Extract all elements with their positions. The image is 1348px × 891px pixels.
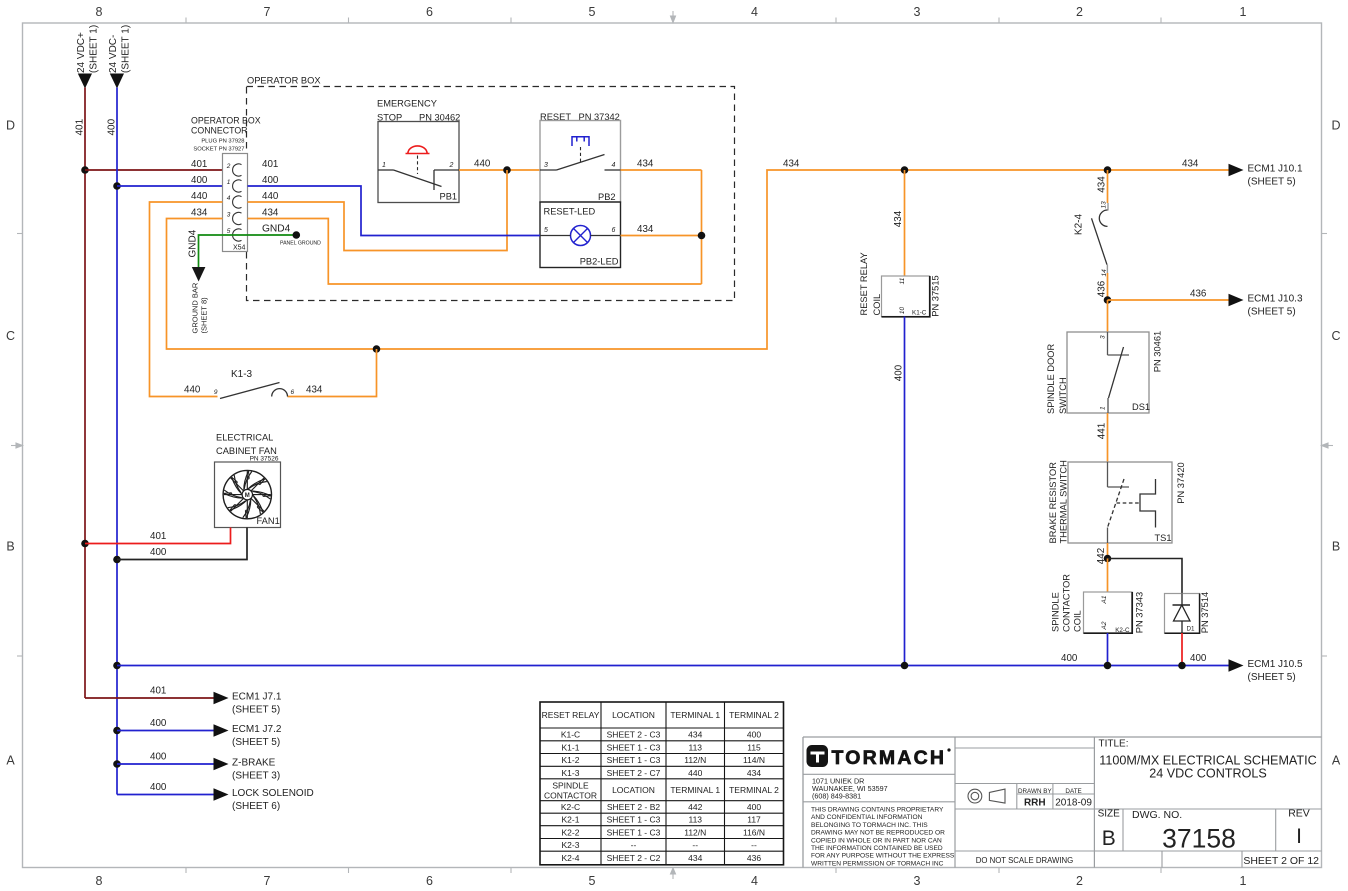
svg-text:9: 9 — [214, 389, 218, 396]
svg-text:WRITTEN PERMISSION OF TORMACH: WRITTEN PERMISSION OF TORMACH INC — [811, 860, 944, 867]
sheet reference ECM1 J10.1 (sheet 5) — [1182, 159, 1303, 188]
svg-text:TERMINAL 2: TERMINAL 2 — [729, 785, 779, 795]
svg-text:OPERATOR BOX: OPERATOR BOX — [247, 76, 321, 86]
svg-text:PN 37343: PN 37343 — [1135, 592, 1145, 633]
svg-text:400: 400 — [262, 175, 279, 186]
svg-text:CABINET FAN: CABINET FAN — [216, 446, 277, 456]
svg-text:SPINDLE DOOR: SPINDLE DOOR — [1046, 343, 1056, 414]
svg-text:PN 37514: PN 37514 — [1200, 592, 1210, 633]
svg-text:SOCKET PN 37927: SOCKET PN 37927 — [193, 147, 244, 153]
svg-text:ECM1 J7.1: ECM1 J7.1 — [232, 692, 282, 703]
svg-text:2: 2 — [449, 162, 454, 169]
svg-text:(SHEET 5): (SHEET 5) — [1248, 672, 1296, 683]
svg-text:401: 401 — [150, 531, 166, 542]
size / dwg no / rev — [1098, 808, 1310, 854]
svg-text:SWITCH: SWITCH — [1058, 377, 1068, 414]
wire 441 DS1 to TS1 — [1097, 413, 1108, 462]
svg-text:A2: A2 — [1101, 621, 1108, 630]
svg-text:2: 2 — [226, 163, 231, 170]
svg-text:8: 8 — [96, 874, 103, 888]
svg-text:4: 4 — [227, 195, 231, 202]
svg-text:434: 434 — [893, 210, 904, 227]
node: 400 bus junction K2-C — [1104, 662, 1112, 670]
svg-text:2: 2 — [1076, 5, 1083, 19]
svg-text:401: 401 — [262, 159, 278, 170]
svg-text:400: 400 — [150, 752, 167, 763]
wire 400 K2-C to bus — [1107, 633, 1109, 666]
svg-text:112/N: 112/N — [684, 827, 706, 837]
svg-text:4: 4 — [751, 5, 758, 19]
svg-text:114/N: 114/N — [743, 755, 765, 765]
svg-text:24 VDC CONTROLS: 24 VDC CONTROLS — [1149, 767, 1267, 781]
pushbutton PB2 RESET PN 37342 — [540, 112, 621, 202]
relay contact K1-3 — [184, 369, 323, 399]
svg-text:440: 440 — [262, 191, 279, 202]
svg-text:GND4: GND4 — [262, 224, 291, 235]
wire 401 fan feed (red) — [85, 528, 231, 544]
svg-text:C: C — [1331, 329, 1340, 343]
svg-text:436: 436 — [1190, 289, 1207, 300]
third-angle projection symbol — [968, 789, 1005, 803]
svg-text:3: 3 — [227, 212, 231, 219]
wire 401 rail vertical — [75, 88, 86, 699]
svg-text:GND4: GND4 — [188, 229, 199, 257]
svg-text:440: 440 — [184, 385, 201, 396]
svg-text:5: 5 — [589, 5, 596, 19]
svg-text:PB2: PB2 — [598, 192, 616, 202]
svg-text:115: 115 — [747, 742, 761, 752]
svg-text:THERMAL SWITCH: THERMAL SWITCH — [1059, 460, 1069, 543]
svg-text:SHEET 1 - C3: SHEET 1 - C3 — [607, 827, 661, 837]
sheet reference ECM1 J7.1 (sheet 5) — [85, 686, 282, 716]
svg-text:M: M — [245, 493, 250, 499]
svg-text:112/N: 112/N — [684, 755, 706, 765]
sheet reference ECM1 J10.3 (sheet 5) — [1108, 289, 1303, 318]
do not scale drawing note — [976, 856, 1073, 865]
sheet reference ECM1 J10.5 (sheet 5) — [1229, 659, 1303, 683]
svg-text:Z-BRAKE: Z-BRAKE — [232, 758, 276, 769]
svg-text:2: 2 — [1076, 874, 1083, 888]
svg-text:K2-4: K2-4 — [562, 853, 580, 863]
svg-text:REV: REV — [1288, 808, 1310, 820]
svg-text:4: 4 — [612, 162, 616, 169]
node: 400 junction to connector — [113, 182, 121, 190]
svg-text:116/N: 116/N — [743, 827, 765, 837]
svg-text:434: 434 — [1182, 159, 1199, 170]
svg-text:440: 440 — [191, 191, 208, 202]
svg-text:3: 3 — [1100, 335, 1107, 339]
svg-text:PN 30461: PN 30461 — [1153, 331, 1163, 372]
svg-text:ECM1 J7.2: ECM1 J7.2 — [232, 724, 282, 735]
contactor coil K2-C SPINDLE CONTACTOR COIL PN 37343 — [1051, 574, 1145, 634]
svg-text:K1-3: K1-3 — [231, 369, 253, 380]
switch DS1 SPINDLE DOOR SWITCH PN 30461 — [1046, 331, 1163, 414]
node: wire 440 junction — [503, 166, 511, 174]
svg-text:24 VDC+: 24 VDC+ — [76, 32, 87, 73]
wire 400 K1-C to bus — [894, 317, 905, 666]
svg-text:K2-2: K2-2 — [562, 827, 580, 837]
svg-text:DWG. NO.: DWG. NO. — [1132, 809, 1182, 821]
wire 440 PB1 pin2 to PB2 pin3 — [459, 159, 540, 171]
svg-text:D: D — [1331, 119, 1340, 133]
svg-text:8: 8 — [96, 5, 103, 19]
svg-text:ECM1 J10.1: ECM1 J10.1 — [1248, 164, 1303, 175]
svg-text:5: 5 — [589, 874, 596, 888]
lamp PB2-LED RESET-LED — [540, 202, 621, 268]
svg-text:B: B — [6, 540, 14, 554]
node: 400 junction ECM1 J7.2 — [113, 727, 121, 735]
operator box enclosure (dashed) — [247, 76, 735, 301]
svg-text:CONNECTOR: CONNECTOR — [191, 126, 248, 136]
node: 401 junction to connector — [81, 166, 89, 174]
node: 434 junction to K2-4 — [1104, 166, 1112, 174]
svg-text:K2-4: K2-4 — [1074, 214, 1085, 236]
svg-text:2018-09: 2018-09 — [1055, 798, 1092, 809]
svg-text:401: 401 — [191, 159, 207, 170]
svg-text:401: 401 — [150, 686, 166, 697]
svg-text:4: 4 — [751, 874, 758, 888]
svg-text:RESET RELAY: RESET RELAY — [542, 710, 600, 720]
svg-text:DO NOT SCALE DRAWING: DO NOT SCALE DRAWING — [976, 856, 1073, 865]
svg-text:(SHEET 5): (SHEET 5) — [1248, 177, 1296, 188]
svg-text:TERMINAL 2: TERMINAL 2 — [729, 710, 779, 720]
svg-text:434: 434 — [783, 159, 800, 170]
svg-text:ECM1 J10.5: ECM1 J10.5 — [1248, 659, 1303, 670]
svg-text:441: 441 — [1097, 423, 1108, 439]
label wire numbers at connector — [191, 159, 291, 235]
svg-text:SPINDLE: SPINDLE — [552, 781, 589, 791]
svg-text:THE INFORMATION CONTAINED BE U: THE INFORMATION CONTAINED BE USED — [811, 845, 943, 852]
wire 434 junction down to K2-4 — [1097, 170, 1108, 203]
svg-text:TERMINAL 1: TERMINAL 1 — [670, 785, 720, 795]
svg-text:DRAWING MAY NOT BE REPRODUCED: DRAWING MAY NOT BE REPRODUCED OR — [811, 830, 945, 837]
svg-text:400: 400 — [107, 118, 118, 135]
svg-text:BRAKE RESISTOR: BRAKE RESISTOR — [1048, 462, 1058, 544]
svg-text:RESET-LED: RESET-LED — [544, 207, 596, 217]
svg-text:(SHEET 6): (SHEET 6) — [232, 801, 280, 812]
wire 434 LED pin6 to junction — [621, 224, 702, 236]
svg-text:434: 434 — [747, 768, 761, 778]
svg-text:--: -- — [692, 840, 698, 850]
svg-text:LOCK SOLENOID: LOCK SOLENOID — [232, 788, 314, 799]
svg-text:(SHEET 1): (SHEET 1) — [89, 25, 100, 73]
wire 434 return to connector — [248, 219, 702, 285]
wire 436 junction to DS1 — [1107, 300, 1109, 332]
svg-text:A1: A1 — [1101, 595, 1108, 604]
svg-text:D: D — [6, 119, 15, 133]
svg-text:K1-2: K1-2 — [562, 755, 580, 765]
svg-text:COIL: COIL — [1073, 610, 1083, 632]
svg-text:5: 5 — [227, 228, 231, 235]
svg-text:K1-3: K1-3 — [562, 768, 580, 778]
svg-text:440: 440 — [474, 159, 491, 170]
wire 400 rail vertical — [107, 88, 118, 795]
svg-text:400: 400 — [747, 730, 761, 740]
wire 442 junction to K2-C — [1107, 559, 1109, 593]
svg-text:K1-C: K1-C — [561, 730, 580, 740]
svg-text:TITLE:: TITLE: — [1099, 739, 1129, 750]
svg-text:PLUG PN 37928: PLUG PN 37928 — [201, 139, 244, 145]
terminal cross-reference table — [540, 702, 784, 865]
node: 400 bus junction K1-C — [901, 662, 909, 670]
svg-text:THIS DRAWING CONTAINS PROPRIET: THIS DRAWING CONTAINS PROPRIETARY — [811, 807, 944, 814]
wire 442 TS1 to junction — [1096, 543, 1108, 564]
svg-text:5: 5 — [544, 227, 548, 234]
diode D1 PN 37514 — [1165, 592, 1211, 633]
svg-text:434: 434 — [637, 224, 654, 235]
svg-text:COPIED IN WHOLE OR IN PART NOR: COPIED IN WHOLE OR IN PART NOR CAN — [811, 837, 942, 844]
svg-text:434: 434 — [1097, 176, 1108, 193]
svg-text:ECM1 J10.3: ECM1 J10.3 — [1248, 294, 1303, 305]
svg-text:113: 113 — [688, 742, 702, 752]
svg-text:6: 6 — [426, 5, 433, 19]
svg-text:COIL: COIL — [872, 294, 882, 316]
Tormach logo — [807, 745, 951, 769]
svg-text:CONTACTOR: CONTACTOR — [1062, 574, 1072, 632]
svg-text:13: 13 — [1101, 201, 1108, 209]
svg-text:--: -- — [631, 840, 637, 850]
node: 434 junction to K1-C — [901, 166, 909, 174]
svg-text:400: 400 — [191, 175, 208, 186]
power entry 24 VDC- (sheet 1) — [108, 25, 132, 89]
svg-text:11: 11 — [899, 277, 906, 284]
pushbutton PB1 EMERGENCY STOP PN 30462 — [377, 99, 460, 203]
wire GND4 (green) — [199, 235, 297, 267]
node: 401 junction to fan — [81, 540, 89, 548]
svg-text:RESET RELAY: RESET RELAY — [859, 252, 869, 315]
wire 440 connector to relay contact K1-3 — [150, 202, 223, 397]
svg-text:BELONGING TO TORMACH INC. THIS: BELONGING TO TORMACH INC. THIS — [811, 822, 928, 829]
sheet number — [1243, 855, 1319, 867]
svg-text:LOCATION: LOCATION — [612, 710, 655, 720]
svg-text:PN 37515: PN 37515 — [931, 275, 941, 316]
svg-text:PANEL GROUND: PANEL GROUND — [280, 241, 321, 247]
svg-text:(SHEET 8): (SHEET 8) — [200, 297, 209, 334]
svg-text:K1-1: K1-1 — [562, 742, 580, 752]
svg-text:SIZE: SIZE — [1098, 809, 1121, 820]
svg-text:6: 6 — [612, 227, 616, 234]
svg-text:10: 10 — [899, 307, 906, 315]
svg-text:EMERGENCY: EMERGENCY — [377, 99, 437, 109]
wire 436 K2-4 to junction — [1097, 273, 1108, 300]
svg-text:TS1: TS1 — [1155, 533, 1172, 543]
svg-text:3: 3 — [544, 162, 548, 169]
svg-text:1: 1 — [382, 162, 386, 169]
title block — [803, 737, 1322, 868]
svg-text:1: 1 — [1240, 874, 1247, 888]
svg-text:1100M/MX ELECTRICAL SCHEMATIC: 1100M/MX ELECTRICAL SCHEMATIC — [1099, 754, 1316, 768]
connector X54 operator box connector — [191, 116, 261, 252]
relay coil K1-C RESET RELAY COIL PN 37515 — [859, 252, 941, 317]
svg-text:400: 400 — [150, 782, 167, 793]
svg-text:401: 401 — [75, 118, 86, 135]
proprietary notice — [811, 807, 955, 868]
ground symbol GND4 to ground bar (sheet 8) — [188, 229, 209, 333]
svg-text:SHEET 2 - C3: SHEET 2 - C3 — [607, 730, 661, 740]
svg-text:TORMACH: TORMACH — [832, 747, 947, 769]
svg-text:400: 400 — [150, 547, 167, 558]
svg-text:DS1: DS1 — [1132, 402, 1150, 412]
svg-text:AND CONFIDENTIAL INFORMATION: AND CONFIDENTIAL INFORMATION — [811, 814, 923, 821]
svg-text:SHEET 2 - C2: SHEET 2 - C2 — [607, 853, 661, 863]
svg-text:SHEET 2 - C7: SHEET 2 - C7 — [607, 768, 661, 778]
svg-text:(608) 849-8381: (608) 849-8381 — [812, 792, 861, 801]
wire 401 branch to operator box connector — [85, 169, 223, 171]
svg-text:1: 1 — [1240, 5, 1247, 19]
node: 400 junction to fan — [113, 556, 121, 564]
svg-text:TERMINAL 1: TERMINAL 1 — [670, 710, 720, 720]
svg-text:6: 6 — [426, 874, 433, 888]
svg-text:B: B — [1332, 540, 1340, 554]
svg-text:436: 436 — [747, 853, 761, 863]
wire 434 junction down to K1-C — [893, 170, 905, 276]
svg-text:400: 400 — [747, 802, 761, 812]
svg-text:D1: D1 — [1187, 626, 1196, 633]
svg-text:117: 117 — [747, 815, 761, 825]
svg-text:SPINDLE: SPINDLE — [1051, 592, 1061, 632]
node: 442 junction — [1104, 555, 1112, 563]
svg-text:A: A — [6, 754, 15, 768]
svg-text:ELECTRICAL: ELECTRICAL — [216, 433, 273, 443]
svg-text:434: 434 — [688, 853, 702, 863]
svg-text:OPERATOR BOX: OPERATOR BOX — [191, 116, 261, 126]
wire 434 junction down to K1-3 contact — [288, 349, 377, 397]
svg-text:PB2-LED: PB2-LED — [580, 257, 619, 267]
svg-text:3: 3 — [914, 874, 921, 888]
svg-text:GROUND BAR: GROUND BAR — [191, 282, 200, 333]
svg-text:440: 440 — [688, 768, 702, 778]
wire 440 drop from junction to connector — [248, 170, 508, 251]
wire 400 connector to PB2-LED pin5 — [248, 186, 541, 236]
wire 434 PB2 pin4 down past LED — [621, 159, 702, 285]
node: 436 junction — [1104, 296, 1112, 304]
svg-text:LOCATION: LOCATION — [612, 785, 655, 795]
wire 400 bus to ECM1 J10.5 — [117, 653, 1229, 666]
svg-text:434: 434 — [306, 385, 323, 396]
svg-text:400: 400 — [894, 364, 905, 381]
svg-text:434: 434 — [688, 730, 702, 740]
svg-text:37158: 37158 — [1162, 824, 1236, 854]
svg-text:B: B — [1102, 827, 1116, 850]
svg-text:C: C — [6, 329, 15, 343]
svg-text:PN 37420: PN 37420 — [1176, 462, 1186, 503]
svg-text:(SHEET 3): (SHEET 3) — [232, 771, 280, 782]
sheet reference ECM1 J7.2 (sheet 5) — [117, 718, 282, 748]
svg-text:K1-C: K1-C — [912, 310, 927, 317]
svg-text:CONTACTOR: CONTACTOR — [544, 791, 597, 801]
sheet reference Z-BRAKE (sheet 3) — [117, 752, 280, 782]
svg-text:400: 400 — [1061, 653, 1078, 664]
svg-text:I: I — [1296, 825, 1302, 848]
svg-text:434: 434 — [191, 208, 208, 219]
node: 434 LED junction — [698, 232, 706, 240]
drawing title — [1099, 739, 1317, 781]
svg-text:24 VDC-: 24 VDC- — [108, 35, 119, 73]
svg-text:X54: X54 — [233, 245, 246, 252]
svg-text:434: 434 — [637, 159, 654, 170]
sheet reference LOCK SOLENOID (sheet 6) — [117, 782, 314, 812]
svg-text:442: 442 — [688, 802, 702, 812]
svg-text:SHEET 2 OF 12: SHEET 2 OF 12 — [1243, 855, 1319, 867]
svg-text:FAN1: FAN1 — [257, 516, 280, 526]
svg-text:(SHEET 1): (SHEET 1) — [121, 25, 132, 73]
node: panel ground — [280, 231, 321, 246]
wire 400 D1 to bus (red) — [1181, 633, 1183, 666]
wire 400 branch to operator box connector — [117, 185, 223, 187]
svg-text:1: 1 — [1100, 406, 1107, 410]
svg-text:RRH: RRH — [1024, 798, 1046, 809]
svg-text:6: 6 — [291, 389, 295, 396]
wire 400 fan return (black) — [117, 528, 247, 560]
power entry 24 VDC+ (sheet 1) — [76, 25, 100, 89]
svg-text:400: 400 — [1190, 653, 1207, 664]
switch TS1 BRAKE RESISTOR THERMAL SWITCH PN 37420 — [1048, 460, 1186, 543]
node: 434 junction above K1-3 — [373, 345, 381, 353]
node: 400 junction Z-BRAKE — [113, 760, 121, 768]
node: 400 bus junction at rail — [113, 662, 121, 670]
svg-text:K2-C: K2-C — [561, 802, 580, 812]
company address — [812, 777, 888, 801]
svg-text:SHEET 1 - C3: SHEET 1 - C3 — [607, 742, 661, 752]
drawn by / date — [1018, 788, 1092, 809]
svg-text:(SHEET 5): (SHEET 5) — [232, 705, 280, 716]
svg-text:A: A — [1332, 754, 1341, 768]
node: 400 bus junction D1 — [1178, 662, 1186, 670]
svg-text:K2-3: K2-3 — [562, 840, 580, 850]
svg-text:DATE: DATE — [1065, 788, 1081, 795]
svg-text:7: 7 — [264, 5, 271, 19]
svg-text:1: 1 — [227, 179, 231, 186]
svg-text:SHEET 2 - B2: SHEET 2 - B2 — [607, 802, 660, 812]
svg-text:(SHEET 5): (SHEET 5) — [1248, 307, 1296, 318]
fan FAN1 ELECTRICAL CABINET FAN PN 37526 — [215, 433, 281, 528]
svg-text:SHEET 1 - C3: SHEET 1 - C3 — [607, 815, 661, 825]
svg-text:FOR ANY PURPOSE WITHOUT THE EX: FOR ANY PURPOSE WITHOUT THE EXPRESS — [811, 853, 955, 860]
svg-text:K2-1: K2-1 — [562, 815, 580, 825]
svg-text:3: 3 — [914, 5, 921, 19]
wire 442 jumper to diode D1 — [1108, 559, 1183, 594]
svg-text:--: -- — [751, 840, 757, 850]
wire 434 connector to K1-3 and riser — [167, 159, 1229, 350]
svg-text:436: 436 — [1097, 280, 1108, 297]
relay contact K2-4 — [1074, 201, 1109, 277]
svg-text:(SHEET 5): (SHEET 5) — [232, 737, 280, 748]
svg-text:PB1: PB1 — [440, 192, 458, 202]
svg-text:7: 7 — [264, 874, 271, 888]
svg-text:SHEET 1 - C3: SHEET 1 - C3 — [607, 755, 661, 765]
svg-text:113: 113 — [688, 815, 702, 825]
svg-text:434: 434 — [262, 208, 279, 219]
svg-text:K2-C: K2-C — [1115, 627, 1130, 634]
svg-text:DRAWN BY: DRAWN BY — [1018, 788, 1053, 795]
svg-text:400: 400 — [150, 718, 167, 729]
